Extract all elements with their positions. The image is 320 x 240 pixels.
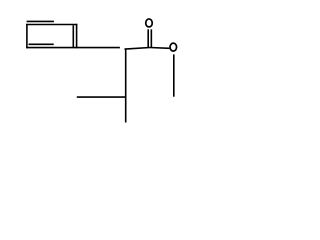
bond ring top edge [26,24,77,26]
atom O carbonyl [146,19,153,27]
bond ring right double-bond inner line [72,25,74,47]
atom O ester [170,43,177,51]
bond ring bottom edge continuing to C2 [26,47,120,49]
bond C=O double line left [147,29,149,47]
bond ring left edge [26,24,28,49]
bond C2 down to C3 and C3 down to methyl [125,48,127,122]
bond C=O double line right [150,29,152,47]
bond ester O to O-methyl [173,54,175,96]
bond ring bottom double-bond inner line [29,43,54,45]
bond C3 to left methyl [77,96,127,98]
bond ring right edge [76,24,78,49]
bond C2 to carbonyl carbon [125,48,150,50]
bond carbonyl carbon to ester O [150,47,170,50]
bond ring top double-bond outer line [27,20,54,22]
